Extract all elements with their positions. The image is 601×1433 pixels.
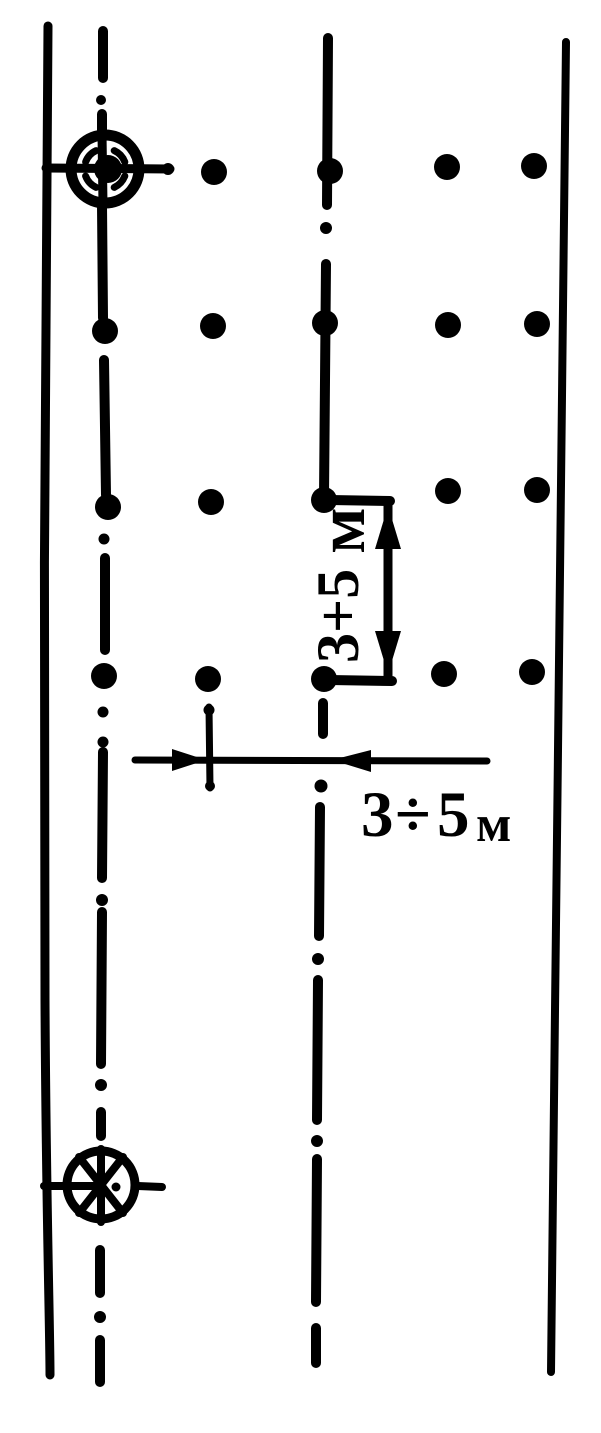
svg-text:3: 3 xyxy=(361,779,394,851)
svg-text:м: м xyxy=(476,796,511,853)
svg-text:3+5 м: 3+5 м xyxy=(303,507,379,663)
svg-text:5: 5 xyxy=(437,779,470,851)
svg-text:÷: ÷ xyxy=(395,779,431,851)
